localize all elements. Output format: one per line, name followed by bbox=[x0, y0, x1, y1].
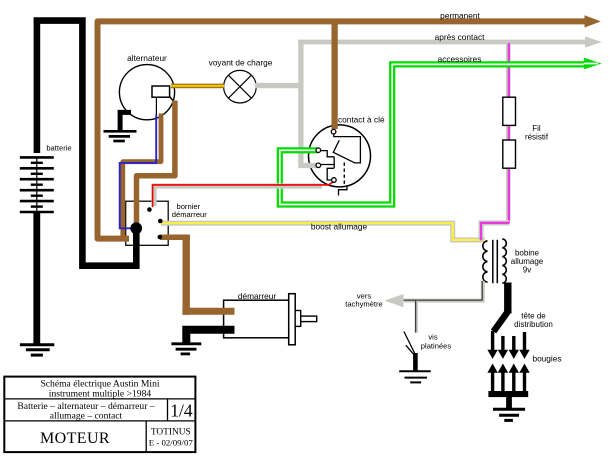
svg-text:allumage – contact: allumage – contact bbox=[50, 411, 123, 422]
spark plug arrow 4 bbox=[519, 364, 529, 393]
distributor rotor lead tête de distribution bbox=[494, 312, 508, 332]
wire battery to ground bbox=[33, 212, 40, 344]
wire red bornier to switch (gray casing) bbox=[153, 181, 335, 207]
starter motor body démarreur bbox=[224, 294, 317, 345]
switch contact step (bottom) bbox=[327, 168, 334, 180]
ground (breaker points) bbox=[399, 371, 431, 382]
svg-text:distribution: distribution bbox=[514, 320, 553, 329]
ignition coil bobine allumage primary winding bbox=[483, 241, 488, 282]
svg-text:alternateur: alternateur bbox=[127, 53, 167, 63]
title block table bbox=[4, 377, 195, 453]
wire black starter ground lead bbox=[186, 330, 234, 343]
wire accessoires green loop bbox=[280, 58, 602, 205]
wire voyant to gray net bbox=[255, 83, 303, 88]
spark plug common bus bbox=[488, 391, 528, 397]
wire bus to ground bbox=[506, 397, 512, 408]
svg-text:démarreur: démarreur bbox=[238, 291, 277, 301]
node bornier top terminal bbox=[147, 207, 152, 212]
ignition coil secondary winding bbox=[502, 239, 506, 283]
svg-text:bougies: bougies bbox=[532, 354, 561, 364]
node bornier right-top terminal bbox=[158, 219, 163, 224]
switch fixed contact bracket bbox=[334, 134, 361, 163]
wire gray behind fil résistif bbox=[506, 43, 511, 221]
resistor box 1 bbox=[503, 97, 516, 125]
svg-text:9v: 9v bbox=[523, 265, 531, 274]
switch terminal bottom bbox=[332, 178, 337, 183]
wire brown alternator to bornier (A) bbox=[137, 97, 176, 224]
wire coil secondary to distributor (thick) bbox=[504, 283, 511, 314]
svg-text:contact à clé: contact à clé bbox=[338, 114, 385, 124]
ignition switch contact à clé body bbox=[309, 125, 371, 187]
wire brown alternator pair (B) bbox=[123, 114, 161, 241]
wire brown bornier to starter bbox=[160, 235, 235, 315]
switch terminal top bbox=[331, 129, 336, 134]
spark plug arrow 1 bougies bbox=[487, 364, 497, 393]
svg-text:MOTEUR: MOTEUR bbox=[40, 430, 110, 447]
svg-text:accessoires: accessoires bbox=[438, 54, 482, 64]
distributor output arrow 3 bbox=[509, 336, 519, 359]
svg-text:1/4: 1/4 bbox=[170, 401, 193, 421]
battery batterie bbox=[20, 157, 54, 212]
wire après contact (gray) with arrow bbox=[298, 36, 602, 165]
resistor box 2 bbox=[503, 140, 516, 168]
node big terminal bornier bbox=[130, 222, 142, 234]
lamp voyant de charge bbox=[224, 70, 257, 103]
breaker points vis platinées bbox=[404, 332, 416, 371]
ignition coil core bbox=[493, 240, 498, 283]
wire magenta vertical fil résistif bbox=[508, 43, 510, 223]
spark plug arrow 2 bbox=[498, 364, 508, 393]
spark plug arrow 3 bbox=[509, 364, 519, 393]
ground (battery) bbox=[20, 345, 54, 355]
distributor output arrow 2 bbox=[498, 336, 508, 359]
svg-text:après contact: après contact bbox=[435, 32, 486, 42]
svg-text:voyant de charge: voyant de charge bbox=[209, 57, 273, 67]
svg-text:boost allumage: boost allumage bbox=[311, 222, 368, 232]
node bornier right-bottom terminal bbox=[158, 235, 163, 240]
svg-text:permanent: permanent bbox=[440, 10, 480, 20]
svg-text:tachymètre: tachymètre bbox=[345, 299, 383, 308]
switch key step bbox=[339, 187, 348, 196]
ground (spark plugs) bbox=[493, 409, 525, 420]
alternator circle bbox=[119, 65, 174, 120]
distributor output arrow 4 bbox=[519, 332, 529, 359]
wire alternator to lamp (gold/yellow) bbox=[171, 84, 224, 89]
svg-text:platinées: platinées bbox=[421, 342, 452, 351]
distributor output arrow 1 bbox=[487, 331, 497, 359]
svg-text:TOTINUS: TOTINUS bbox=[151, 427, 191, 437]
switch contact step (left-lower) bbox=[321, 157, 334, 169]
switch terminal left-lower bbox=[316, 163, 321, 168]
svg-text:résistif: résistif bbox=[525, 132, 549, 141]
svg-text:E - 02/09/07: E - 02/09/07 bbox=[149, 438, 194, 448]
wire gray to tachymeter bbox=[384, 281, 483, 333]
alternator connector box bbox=[152, 86, 175, 116]
wire black battery loop bbox=[37, 21, 136, 266]
wire boost allumage (yellow w/ gray casing) bbox=[161, 223, 485, 240]
ground (starter) bbox=[171, 344, 201, 354]
ground (alternator) bbox=[104, 131, 137, 141]
svg-text:instrument multiple >1984: instrument multiple >1984 bbox=[49, 388, 152, 399]
svg-text:vis: vis bbox=[428, 333, 437, 342]
svg-text:batterie: batterie bbox=[46, 144, 71, 153]
wire brown loop permanent bbox=[98, 15, 601, 238]
starter terminal block bornier démarreur bbox=[126, 201, 169, 245]
alternator ground lead bbox=[120, 112, 131, 130]
wire magenta to coil bbox=[481, 223, 509, 241]
switch mechanical dashed link bbox=[343, 163, 345, 187]
switch terminal left-upper bbox=[316, 148, 321, 153]
wire brown drop to switch bbox=[331, 21, 337, 129]
switch contact step (left-upper) bbox=[321, 151, 335, 157]
switch rotor wedge bbox=[333, 140, 355, 163]
svg-text:démarreur: démarreur bbox=[172, 210, 207, 219]
wire blue alternator to bornier bbox=[120, 115, 157, 229]
